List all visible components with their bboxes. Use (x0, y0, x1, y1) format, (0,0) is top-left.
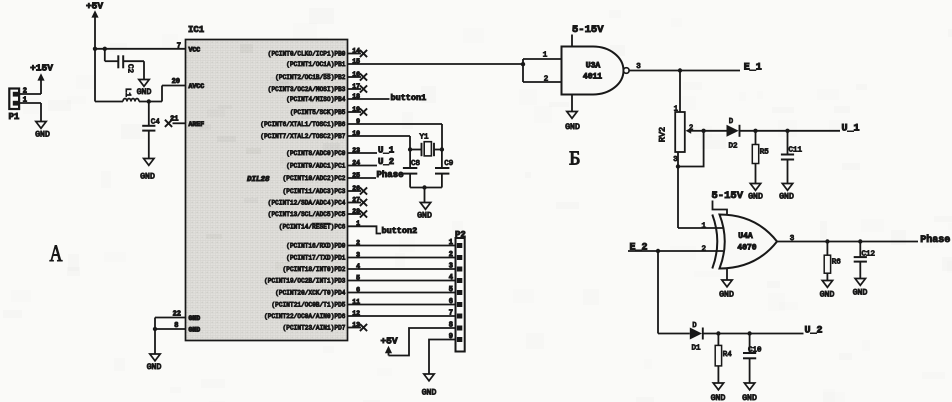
svg-text:1: 1 (701, 222, 706, 230)
svg-text:(PCINT18/INT0)PD2: (PCINT18/INT0)PD2 (283, 266, 346, 273)
svg-text:Б: Б (569, 148, 580, 170)
svg-text:R6: R6 (832, 259, 842, 267)
svg-text:GND: GND (417, 211, 432, 220)
svg-text:(PCINT8/ADC0)PC0: (PCINT8/ADC0)PC0 (286, 150, 346, 157)
svg-text:GND: GND (742, 394, 757, 402)
svg-text:(PCINT19/OC2B/INT1)PD3: (PCINT19/OC2B/INT1)PD3 (264, 278, 346, 285)
svg-text:9: 9 (449, 333, 453, 341)
svg-text:+15V: +15V (30, 63, 53, 74)
svg-text:(PCINT1/OC1A)PB1: (PCINT1/OC1A)PB1 (286, 61, 346, 68)
svg-text:1: 1 (23, 97, 27, 105)
svg-text:(PCINT13/SCL/ADC5)PC5: (PCINT13/SCL/ADC5)PC5 (268, 211, 346, 218)
svg-text:GND: GND (711, 394, 726, 402)
svg-text:R4: R4 (723, 351, 733, 359)
svg-text:L1: L1 (123, 88, 131, 98)
svg-text:2: 2 (23, 88, 27, 96)
svg-text:(PCINT11/ADC3)PC3: (PCINT11/ADC3)PC3 (283, 188, 346, 195)
svg-text:6: 6 (449, 298, 453, 306)
svg-text:U4A: U4A (738, 232, 753, 241)
svg-text:Phase: Phase (377, 170, 404, 180)
svg-text:DIL28: DIL28 (247, 176, 270, 184)
svg-text:(PCINT21/OC0B/T1)PD5: (PCINT21/OC0B/T1)PD5 (271, 302, 345, 309)
svg-text:(PCINT9/ADC1)PC1: (PCINT9/ADC1)PC1 (286, 163, 346, 170)
svg-text:4070: 4070 (737, 244, 756, 253)
svg-text:GND: GND (137, 88, 152, 97)
svg-text:C9: C9 (444, 160, 453, 168)
svg-text:4: 4 (449, 274, 453, 282)
svg-text:E_1: E_1 (744, 63, 762, 74)
svg-text:+5V: +5V (380, 336, 397, 347)
svg-text:A: A (50, 242, 63, 267)
svg-text:(PCINT0/CLKO/ICP1)PB0: (PCINT0/CLKO/ICP1)PB0 (268, 51, 346, 58)
svg-text:3: 3 (636, 63, 641, 71)
svg-text:VCC: VCC (189, 46, 201, 53)
svg-text:2: 2 (701, 245, 706, 253)
svg-text:5-15V: 5-15V (572, 24, 604, 36)
svg-text:(PCINT3/OC2A/MOSI)PB3: (PCINT3/OC2A/MOSI)PB3 (268, 86, 346, 93)
svg-text:D: D (692, 322, 696, 330)
svg-text:GND: GND (779, 193, 794, 202)
svg-text:7: 7 (449, 310, 453, 318)
svg-text:C8: C8 (411, 160, 420, 168)
svg-text:E_2: E_2 (630, 242, 648, 253)
svg-text:3: 3 (449, 263, 453, 271)
svg-text:+5V: +5V (86, 0, 103, 11)
svg-text:U_1: U_1 (842, 124, 860, 135)
svg-text:P2: P2 (455, 230, 466, 240)
svg-text:2: 2 (689, 124, 693, 132)
svg-text:U3A: U3A (586, 62, 601, 71)
svg-text:(PCINT17/TXD)PD1: (PCINT17/TXD)PD1 (286, 255, 346, 262)
svg-text:(PCINT10/ADC2)PC2: (PCINT10/ADC2)PC2 (283, 175, 346, 182)
svg-text:Phase: Phase (920, 234, 950, 246)
svg-text:R5: R5 (760, 149, 770, 157)
svg-text:button2: button2 (382, 226, 418, 236)
svg-text:5: 5 (449, 286, 453, 294)
svg-text:C4: C4 (151, 118, 161, 126)
svg-text:(PCINT7/XTAL2/TOSC2)PB7: (PCINT7/XTAL2/TOSC2)PB7 (260, 133, 345, 140)
svg-text:C12: C12 (862, 250, 876, 258)
svg-text:1: 1 (543, 52, 548, 60)
svg-text:(PCINT12/SDA/ADC4)PC4: (PCINT12/SDA/ADC4)PC4 (268, 200, 346, 207)
svg-text:(PCINT22/OC0A/AIN0)PD6: (PCINT22/OC0A/AIN0)PD6 (264, 313, 346, 320)
svg-text:RV2: RV2 (658, 127, 668, 142)
svg-text:(PCINT23/AIN1)PD7: (PCINT23/AIN1)PD7 (283, 325, 346, 332)
svg-text:P1: P1 (9, 112, 20, 122)
svg-text:(PCINT16/RXD)PD0: (PCINT16/RXD)PD0 (286, 243, 346, 250)
svg-text:Y1: Y1 (419, 133, 429, 141)
svg-text:3: 3 (673, 156, 677, 164)
svg-text:(PCINT4/MISO)PB4: (PCINT4/MISO)PB4 (286, 96, 346, 103)
svg-text:C11: C11 (789, 146, 803, 154)
svg-text:U_2: U_2 (805, 326, 823, 337)
svg-text:D1: D1 (691, 344, 701, 352)
svg-text:GND: GND (422, 389, 437, 398)
svg-text:(PCINT6/XTAL1/TOSC1)PB6: (PCINT6/XTAL1/TOSC1)PB6 (260, 121, 345, 128)
svg-text:GND: GND (35, 131, 50, 140)
svg-text:4011: 4011 (583, 73, 602, 82)
svg-text:button1: button1 (391, 93, 427, 103)
svg-text:D2: D2 (728, 143, 737, 151)
svg-text:2: 2 (544, 76, 549, 84)
svg-text:IC1: IC1 (188, 25, 205, 35)
svg-text:GND: GND (140, 173, 155, 182)
svg-text:C10: C10 (748, 346, 762, 354)
svg-text:(PCINT14/RESET)PC6: (PCINT14/RESET)PC6 (279, 223, 346, 230)
svg-text:U_2: U_2 (378, 157, 394, 167)
svg-text:GND: GND (748, 192, 763, 201)
svg-text:AVCC: AVCC (189, 83, 205, 90)
svg-text:GND: GND (853, 288, 868, 297)
svg-text:3: 3 (790, 235, 795, 243)
svg-text:(PCINT20/XCK/T0)PD4: (PCINT20/XCK/T0)PD4 (275, 290, 346, 297)
svg-text:AREF: AREF (189, 121, 205, 128)
svg-text:(PCINT5/SCK)PB5: (PCINT5/SCK)PB5 (290, 109, 346, 116)
svg-text:GND: GND (820, 290, 835, 299)
svg-text:D: D (729, 118, 733, 126)
svg-text:(PCINT2/OC1B/SS)PB2: (PCINT2/OC1B/SS)PB2 (275, 74, 346, 81)
svg-text:1: 1 (674, 106, 678, 114)
svg-text:U_1: U_1 (378, 145, 395, 155)
svg-text:8: 8 (449, 322, 453, 330)
svg-text:GND: GND (189, 327, 201, 334)
svg-text:GND: GND (565, 123, 580, 132)
svg-text:C2: C2 (126, 64, 134, 73)
svg-text:5-15V: 5-15V (712, 190, 744, 202)
svg-text:1: 1 (449, 239, 453, 247)
svg-text:2: 2 (449, 251, 453, 259)
svg-text:GND: GND (189, 315, 201, 322)
svg-text:GND: GND (147, 363, 162, 372)
svg-text:GND: GND (719, 291, 734, 300)
